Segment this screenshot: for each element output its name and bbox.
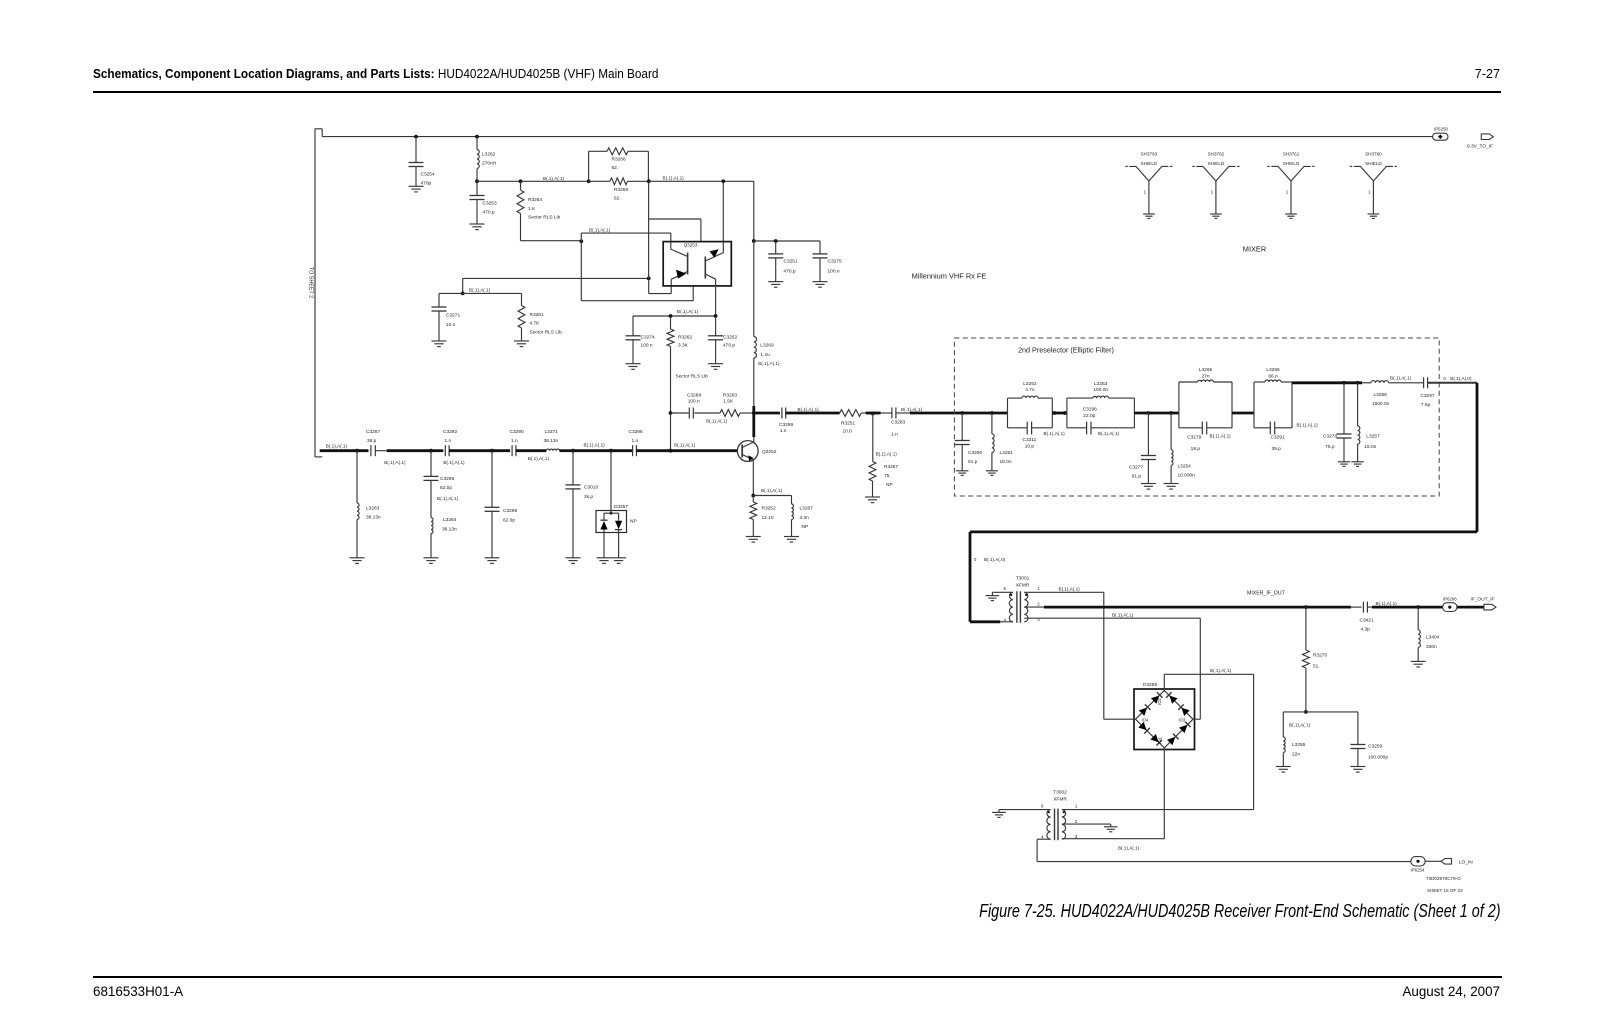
svg-text:LO_IN: LO_IN bbox=[1459, 859, 1473, 865]
svg-text:SHIELD: SHIELD bbox=[1365, 161, 1382, 166]
svg-text:IO1: IO1 bbox=[1157, 736, 1162, 743]
wire pin1 bbox=[1062, 809, 1254, 811]
svg-text:SH3761: SH3761 bbox=[1283, 151, 1300, 156]
svg-text:3.3K: 3.3K bbox=[678, 343, 689, 349]
svg-text:27n: 27n bbox=[1201, 373, 1209, 379]
svg-text:SHIELD: SHIELD bbox=[1141, 161, 1158, 166]
svg-text:C3278: C3278 bbox=[1323, 434, 1337, 440]
svg-text:R3264: R3264 bbox=[528, 197, 542, 203]
svg-text:73D02970C79-O: 73D02970C79-O bbox=[1426, 876, 1461, 881]
svg-text:L3258: L3258 bbox=[1374, 392, 1388, 398]
svg-text:100.n: 100.n bbox=[828, 269, 840, 275]
resistor R3252 bbox=[750, 502, 757, 520]
ground bbox=[626, 363, 641, 365]
capacitor C3274 bbox=[632, 316, 634, 336]
svg-text:15.0n: 15.0n bbox=[1364, 444, 1376, 450]
svg-text:L3269: L3269 bbox=[760, 342, 774, 348]
svg-text:C3298: C3298 bbox=[503, 508, 517, 514]
svg-text:L3264: L3264 bbox=[443, 517, 457, 523]
svg-text:1.K: 1.K bbox=[528, 206, 536, 212]
svg-text:1.n: 1.n bbox=[891, 431, 898, 437]
transistor Q3252 bbox=[737, 441, 758, 462]
svg-text:75.p: 75.p bbox=[1325, 444, 1335, 450]
svg-text:B(.1),A(.1): B(.1),A(.1) bbox=[1390, 376, 1412, 381]
wire bbox=[1232, 412, 1254, 415]
wire pin3 bbox=[1062, 838, 1164, 840]
ground bbox=[708, 363, 723, 365]
svg-text:B(.1),A(.1): B(.1),A(.1) bbox=[326, 444, 348, 449]
resistor R3262 bbox=[670, 316, 672, 329]
inductor L3254 bbox=[1170, 413, 1172, 450]
svg-text:L3262: L3262 bbox=[482, 152, 496, 158]
capacitor C3297 bbox=[1423, 377, 1425, 388]
svg-text:L3255: L3255 bbox=[1292, 742, 1306, 748]
ground bbox=[1411, 660, 1426, 662]
svg-text:R3251: R3251 bbox=[841, 421, 855, 427]
svg-text:B(.1),A(.1): B(.1),A(.1) bbox=[706, 418, 728, 423]
capacitor C3421 bbox=[1351, 606, 1362, 608]
svg-text:0: 0 bbox=[1443, 376, 1446, 381]
svg-text:100.000p: 100.000p bbox=[1368, 755, 1388, 761]
wire rail drop to pin bbox=[648, 181, 650, 278]
resonator L3253 C3296 bbox=[1066, 398, 1068, 428]
svg-text:38.13n: 38.13n bbox=[544, 438, 559, 444]
capacitor C3275 bbox=[819, 241, 821, 254]
2nd Preselector (Elliptic Filter) box bbox=[954, 338, 1439, 496]
svg-text:10.0: 10.0 bbox=[843, 429, 853, 435]
inductor L3404 bbox=[1417, 607, 1419, 630]
svg-text:66.n: 66.n bbox=[1268, 373, 1278, 379]
capacitor C3296 bbox=[632, 445, 634, 456]
inductor L3258 bbox=[1362, 382, 1371, 384]
wire ring left bbox=[1104, 718, 1136, 720]
svg-text:C3283: C3283 bbox=[891, 420, 905, 426]
svg-text:B(.1),A(.1): B(.1),A(.1) bbox=[1210, 668, 1232, 673]
svg-text:470.p: 470.p bbox=[483, 210, 495, 216]
svg-text:C3291: C3291 bbox=[1271, 434, 1285, 440]
svg-text:C3254: C3254 bbox=[421, 172, 435, 178]
ground bbox=[813, 281, 828, 283]
connector IP6250 bbox=[1433, 133, 1448, 140]
svg-text:51.p: 51.p bbox=[968, 459, 978, 465]
ground bbox=[986, 595, 1000, 597]
svg-text:IF_OUT_IF: IF_OUT_IF bbox=[1471, 596, 1495, 602]
svg-text:SH3762: SH3762 bbox=[1208, 151, 1225, 156]
svg-text:C3296: C3296 bbox=[629, 429, 643, 435]
svg-text:1: 1 bbox=[1144, 190, 1147, 195]
svg-text:6: 6 bbox=[1004, 586, 1007, 591]
svg-text:0: 0 bbox=[974, 557, 977, 562]
svg-text:330n: 330n bbox=[1426, 644, 1437, 650]
svg-text:C3252: C3252 bbox=[723, 334, 737, 340]
svg-text:C3292: C3292 bbox=[443, 429, 457, 435]
wire ring right bbox=[1193, 718, 1200, 720]
wire pin1 bbox=[1024, 591, 1104, 593]
svg-text:39.p: 39.p bbox=[1272, 446, 1282, 452]
svg-text:Sector RLS Lib: Sector RLS Lib bbox=[530, 329, 563, 335]
capacitor C3252 bbox=[715, 316, 717, 336]
svg-text:B(.1),A(.1): B(.1),A(.1) bbox=[798, 407, 820, 412]
svg-text:R3252: R3252 bbox=[762, 506, 776, 512]
svg-text:B(.1),A(.1): B(.1),A(.1) bbox=[528, 456, 550, 461]
ground bbox=[485, 557, 500, 559]
svg-text:SHEET 16 OF 23: SHEET 16 OF 23 bbox=[1427, 888, 1463, 893]
svg-text:B(.1),A(.1): B(.1),A(.1) bbox=[589, 228, 611, 233]
svg-text:IO4: IO4 bbox=[1142, 717, 1149, 722]
capacitor C3268 bbox=[688, 408, 690, 419]
ground bbox=[784, 536, 799, 538]
svg-text:XFMR: XFMR bbox=[1016, 583, 1030, 589]
svg-text:IP6250: IP6250 bbox=[1434, 126, 1448, 131]
wire pin6 to ground bbox=[992, 591, 1013, 593]
svg-text:2: 2 bbox=[1037, 602, 1040, 607]
ground bbox=[1338, 461, 1350, 463]
wire pin2 ground bbox=[1062, 823, 1111, 825]
svg-text:B(.1),A(.1): B(.1),A(.1) bbox=[1098, 431, 1120, 436]
wire collector drop bbox=[753, 181, 755, 241]
svg-text:NP: NP bbox=[886, 482, 893, 488]
svg-text:SHIELD: SHIELD bbox=[1283, 161, 1300, 166]
svg-text:1: 1 bbox=[1037, 586, 1040, 591]
ground bbox=[424, 557, 439, 559]
svg-text:B(.1),A(.0): B(.1),A(.0) bbox=[1450, 376, 1472, 381]
resistor R3268 bbox=[589, 180, 610, 182]
svg-text:1.2u: 1.2u bbox=[760, 352, 770, 358]
svg-text:B(.1),A(.1): B(.1),A(.1) bbox=[1210, 434, 1232, 439]
svg-text:22.0p: 22.0p bbox=[1083, 413, 1095, 419]
figure caption bbox=[979, 900, 1500, 922]
svg-text:470.p: 470.p bbox=[723, 343, 735, 349]
inductor L3264 bbox=[431, 518, 433, 534]
inductor L3271 bbox=[546, 449, 559, 451]
ground bbox=[597, 557, 612, 559]
resistor R3288 bbox=[587, 179, 591, 183]
inductor L3263 bbox=[356, 451, 358, 503]
capacitor C3295 bbox=[430, 451, 432, 477]
wire rail to Q3253 bbox=[649, 180, 754, 182]
svg-text:C3277: C3277 bbox=[1129, 464, 1143, 470]
svg-text:L3251: L3251 bbox=[1000, 450, 1014, 456]
svg-text:4.3p: 4.3p bbox=[1361, 626, 1371, 632]
capacitor C3278 bbox=[1343, 383, 1345, 434]
capacitor C3253 bbox=[476, 181, 478, 195]
svg-text:C3290: C3290 bbox=[968, 450, 982, 456]
svg-text:10.p: 10.p bbox=[1025, 444, 1035, 450]
svg-text:R3288: R3288 bbox=[612, 156, 626, 162]
capacitor C3254 bbox=[414, 135, 418, 139]
svg-text:62.0p: 62.0p bbox=[503, 518, 515, 524]
capacitor C3298 bbox=[491, 451, 493, 508]
svg-text:IO2: IO2 bbox=[1157, 697, 1162, 704]
wire bias rail bbox=[477, 180, 589, 182]
svg-text:12.10: 12.10 bbox=[762, 515, 774, 521]
node L3263 tap bbox=[355, 449, 359, 453]
svg-text:T3002: T3002 bbox=[1053, 790, 1067, 796]
svg-text:B(.1),A(.1): B(.1),A(.1) bbox=[443, 460, 465, 465]
svg-text:1.n: 1.n bbox=[632, 438, 639, 444]
svg-text:SH3763: SH3763 bbox=[1141, 151, 1158, 156]
svg-text:1: 1 bbox=[1286, 190, 1289, 195]
wire pin4 LO feed bbox=[1037, 838, 1051, 840]
svg-text:22n: 22n bbox=[1292, 752, 1300, 758]
inductor L3262 bbox=[475, 135, 479, 139]
resistor R3251 bbox=[840, 410, 862, 417]
svg-text:100.n: 100.n bbox=[688, 399, 700, 405]
svg-text:Sector RLS Lib: Sector RLS Lib bbox=[528, 215, 561, 221]
ground bbox=[514, 340, 529, 342]
svg-text:38.13n: 38.13n bbox=[366, 515, 381, 521]
svg-text:B(.1),A(.1): B(.1),A(.1) bbox=[761, 488, 783, 493]
svg-text:D3258: D3258 bbox=[1143, 682, 1157, 688]
wire R3264 net jog bbox=[579, 239, 583, 243]
ground bbox=[409, 185, 424, 187]
svg-text:C3274: C3274 bbox=[641, 334, 655, 340]
ground bbox=[1141, 483, 1156, 485]
resistor R3264 bbox=[519, 179, 523, 183]
capacitor C3283 bbox=[891, 408, 893, 419]
svg-text:R3270: R3270 bbox=[1313, 653, 1327, 659]
svg-text:L3253: L3253 bbox=[1094, 381, 1108, 387]
svg-text:C3253: C3253 bbox=[483, 201, 497, 207]
ground bbox=[1350, 766, 1365, 768]
svg-text:3: 3 bbox=[1037, 617, 1040, 622]
svg-text:T3001: T3001 bbox=[1016, 576, 1030, 582]
svg-text:18.0n: 18.0n bbox=[1000, 459, 1012, 465]
wire emitter return bbox=[463, 277, 649, 279]
svg-text:B(.1),A(.1): B(.1),A(.1) bbox=[758, 361, 780, 366]
svg-text:6: 6 bbox=[1041, 804, 1044, 809]
wire 9.3V top rail bbox=[322, 136, 1432, 138]
svg-text:470p: 470p bbox=[421, 181, 432, 187]
svg-text:1: 1 bbox=[1368, 190, 1371, 195]
svg-text:4.7K: 4.7K bbox=[530, 321, 541, 327]
capacitor C3271 bbox=[438, 293, 440, 307]
svg-text:B(.1),A(.1): B(.1),A(.1) bbox=[1044, 431, 1066, 436]
ground bbox=[350, 557, 365, 559]
wire ring bottom to T3002 pin3 bbox=[1163, 748, 1165, 839]
wire collector feed bbox=[753, 241, 755, 337]
wire main RF bus bbox=[320, 449, 369, 452]
ground bbox=[1285, 213, 1297, 215]
ground bbox=[1210, 213, 1222, 215]
svg-text:SHIELD: SHIELD bbox=[1208, 161, 1225, 166]
svg-text:C3295: C3295 bbox=[440, 476, 454, 482]
ground bbox=[1351, 461, 1363, 463]
inductor L3269 bbox=[754, 337, 757, 359]
svg-text:B(.1),A(.1): B(.1),A(.1) bbox=[677, 309, 699, 314]
capacitor C3290 bbox=[492, 449, 510, 452]
inductor L3255 bbox=[1282, 712, 1284, 737]
svg-text:100.n: 100.n bbox=[641, 343, 653, 349]
svg-text:2nd Preselector (Elliptic Filt: 2nd Preselector (Elliptic Filter) bbox=[1018, 346, 1114, 355]
svg-text:B(.1),A(.1): B(.1),A(.1) bbox=[1112, 612, 1134, 617]
svg-text:9.3V_TO_IF: 9.3V_TO_IF bbox=[1467, 144, 1493, 150]
ground bbox=[566, 557, 581, 559]
svg-text:18.p: 18.p bbox=[1191, 446, 1201, 452]
wire bbox=[1134, 412, 1179, 415]
svg-text:TO SHEET 2: TO SHEET 2 bbox=[308, 267, 314, 298]
svg-text:38.13n: 38.13n bbox=[442, 527, 457, 533]
ground bbox=[956, 470, 968, 472]
diode D3258 ring mixer bbox=[1134, 689, 1195, 750]
wire R3262 to C3268 net bbox=[670, 347, 672, 414]
svg-text:75.: 75. bbox=[884, 473, 891, 479]
svg-text:XFMR: XFMR bbox=[1053, 797, 1067, 803]
inductor L3251 bbox=[991, 413, 993, 434]
svg-text:C3287: C3287 bbox=[366, 429, 380, 435]
wire LC net bbox=[1283, 711, 1358, 713]
wire ring top to T3002 pin1 bbox=[1163, 674, 1165, 690]
svg-text:Q3253: Q3253 bbox=[684, 243, 698, 248]
capacitor C3290 shunt bbox=[961, 413, 963, 441]
svg-text:L3267: L3267 bbox=[800, 506, 814, 512]
ground bbox=[470, 223, 485, 225]
inductor L3257 bbox=[1357, 383, 1359, 426]
svg-text:1: 1 bbox=[1075, 804, 1078, 809]
svg-text:L3266: L3266 bbox=[1266, 367, 1280, 373]
wire C3271 net bbox=[462, 278, 464, 293]
svg-text:7.5p: 7.5p bbox=[1421, 402, 1431, 408]
svg-text:100.0n: 100.0n bbox=[1093, 387, 1108, 393]
resistor R3261 bbox=[521, 293, 523, 305]
svg-text:R3268: R3268 bbox=[614, 187, 628, 193]
svg-text:B(.1),A(.1): B(.1),A(.1) bbox=[1118, 846, 1140, 851]
wire emitter to bias net bbox=[715, 279, 717, 316]
svg-text:62.: 62. bbox=[612, 165, 619, 171]
svg-text:C3268: C3268 bbox=[687, 393, 701, 399]
capacitor C3277 bbox=[1147, 413, 1149, 456]
wire bias net bbox=[633, 315, 716, 317]
capacitor C3287 bbox=[370, 445, 372, 456]
svg-text:SH3760: SH3760 bbox=[1365, 151, 1382, 156]
svg-text:62.0p: 62.0p bbox=[440, 485, 452, 491]
svg-text:51.: 51. bbox=[1313, 664, 1320, 670]
svg-text:B(.1),A(.1): B(.1),A(.1) bbox=[1289, 723, 1311, 728]
wire pin2 MIXER_IF_OUT bbox=[1024, 606, 1044, 608]
svg-text:IP6254: IP6254 bbox=[1411, 867, 1425, 872]
svg-text:2: 2 bbox=[1075, 819, 1078, 824]
svg-text:2k.p: 2k.p bbox=[584, 494, 593, 500]
svg-text:MIXER: MIXER bbox=[1243, 245, 1266, 254]
svg-text:L3271: L3271 bbox=[545, 429, 559, 435]
svg-text:B(.1),A(.1): B(.1),A(.1) bbox=[1059, 586, 1081, 591]
svg-text:L3254: L3254 bbox=[1178, 463, 1192, 469]
svg-text:1.n: 1.n bbox=[511, 438, 518, 444]
resistor R3267 bbox=[872, 413, 874, 462]
svg-text:IP6266: IP6266 bbox=[1443, 597, 1457, 602]
svg-text:C3297: C3297 bbox=[1420, 393, 1434, 399]
connector IP6254 bbox=[1411, 857, 1425, 866]
svg-text:R3267: R3267 bbox=[884, 464, 898, 470]
ground bbox=[1368, 213, 1380, 215]
svg-text:L3404: L3404 bbox=[1426, 635, 1440, 641]
svg-text:1.n: 1.n bbox=[780, 428, 787, 434]
svg-text:1.5K: 1.5K bbox=[723, 399, 734, 405]
ground bbox=[992, 811, 1006, 813]
ground bbox=[865, 496, 880, 498]
diode D3257 bbox=[610, 451, 612, 514]
svg-text:L3265: L3265 bbox=[1199, 367, 1213, 373]
ground bbox=[432, 340, 447, 342]
svg-text:3.3n: 3.3n bbox=[800, 515, 810, 521]
svg-text:B(.1),A(.1): B(.1),A(.1) bbox=[543, 176, 565, 181]
wire pin3 bbox=[1024, 617, 1200, 619]
svg-text:B(.1),A(.1): B(.1),A(.1) bbox=[876, 451, 898, 456]
resonator L3266 C3291 bbox=[1253, 382, 1255, 428]
svg-text:Sector RLS Lib: Sector RLS Lib bbox=[676, 374, 709, 380]
svg-text:1.n: 1.n bbox=[445, 438, 452, 444]
connector IP6266 bbox=[1443, 603, 1457, 612]
svg-text:C3296: C3296 bbox=[1083, 406, 1097, 412]
svg-text:10.n: 10.n bbox=[446, 322, 456, 328]
svg-text:10.000n: 10.000n bbox=[1178, 473, 1196, 479]
svg-text:C3010: C3010 bbox=[584, 484, 598, 490]
svg-text:270nH: 270nH bbox=[482, 161, 497, 167]
svg-text:C3290: C3290 bbox=[510, 429, 524, 435]
svg-text:R3262: R3262 bbox=[678, 334, 692, 340]
ground bbox=[1143, 213, 1155, 215]
wire bbox=[1052, 412, 1067, 415]
wire filter output bbox=[1292, 381, 1362, 384]
wire top-left bracket to sheet 2 bbox=[315, 128, 322, 130]
ground bbox=[611, 557, 626, 559]
svg-text:IO3: IO3 bbox=[1179, 717, 1186, 722]
svg-text:1500.0n: 1500.0n bbox=[1372, 401, 1390, 407]
resistor R3270 bbox=[1304, 605, 1308, 609]
svg-text:B(.1),A(.1): B(.1),A(.1) bbox=[901, 407, 923, 412]
wire to mixer bbox=[1428, 382, 1477, 384]
svg-text:B(.1),A(.0): B(.1),A(.0) bbox=[984, 557, 1006, 562]
svg-text:B(.1),A(.1): B(.1),A(.1) bbox=[663, 176, 685, 181]
wire pin4 feed bbox=[1000, 621, 1013, 623]
svg-text:C3269: C3269 bbox=[779, 422, 793, 428]
svg-text:B(.1),A(.1): B(.1),A(.1) bbox=[584, 442, 606, 447]
svg-text:62.: 62. bbox=[614, 195, 621, 201]
svg-text:NP: NP bbox=[630, 518, 637, 524]
svg-text:L3252: L3252 bbox=[1023, 381, 1037, 387]
svg-text:B(.1),A(.1): B(.1),A(.1) bbox=[437, 496, 459, 501]
ground bbox=[1104, 826, 1118, 828]
svg-text:L3263: L3263 bbox=[366, 506, 380, 512]
wire decoupling net bbox=[752, 239, 756, 243]
svg-text:R3263: R3263 bbox=[723, 393, 737, 399]
wire net to bus bbox=[670, 413, 672, 451]
ground bbox=[768, 281, 783, 283]
resistor R3263 bbox=[720, 410, 740, 417]
wire pin6 ground bbox=[999, 809, 1051, 811]
svg-text:C3275: C3275 bbox=[828, 259, 842, 265]
svg-text:91.p: 91.p bbox=[1132, 474, 1142, 480]
ground bbox=[1276, 766, 1291, 768]
svg-text:B(.1),A(.1): B(.1),A(.1) bbox=[469, 287, 491, 292]
svg-text:4.7n: 4.7n bbox=[1025, 387, 1035, 393]
svg-text:C3421: C3421 bbox=[1360, 617, 1374, 623]
svg-text:D3257: D3257 bbox=[614, 504, 628, 510]
svg-text:1: 1 bbox=[1211, 190, 1214, 195]
svg-text:R3261: R3261 bbox=[530, 312, 544, 318]
wire base bias net bbox=[669, 411, 673, 415]
wire collector output bbox=[754, 412, 780, 415]
ground bbox=[986, 470, 998, 472]
capacitor C3259 bbox=[1357, 712, 1359, 745]
svg-text:B(.1),A(.1): B(.1),A(.1) bbox=[674, 442, 696, 447]
wire LO_IN line bbox=[1037, 861, 1411, 863]
inductor L3267 bbox=[753, 495, 791, 497]
svg-text:Q3252: Q3252 bbox=[762, 449, 777, 455]
svg-text:B(.1),A(.1): B(.1),A(.1) bbox=[1297, 423, 1319, 428]
svg-text:B(.1),A(.1): B(.1),A(.1) bbox=[1376, 601, 1398, 606]
transformer T3001 bbox=[1009, 592, 1013, 622]
